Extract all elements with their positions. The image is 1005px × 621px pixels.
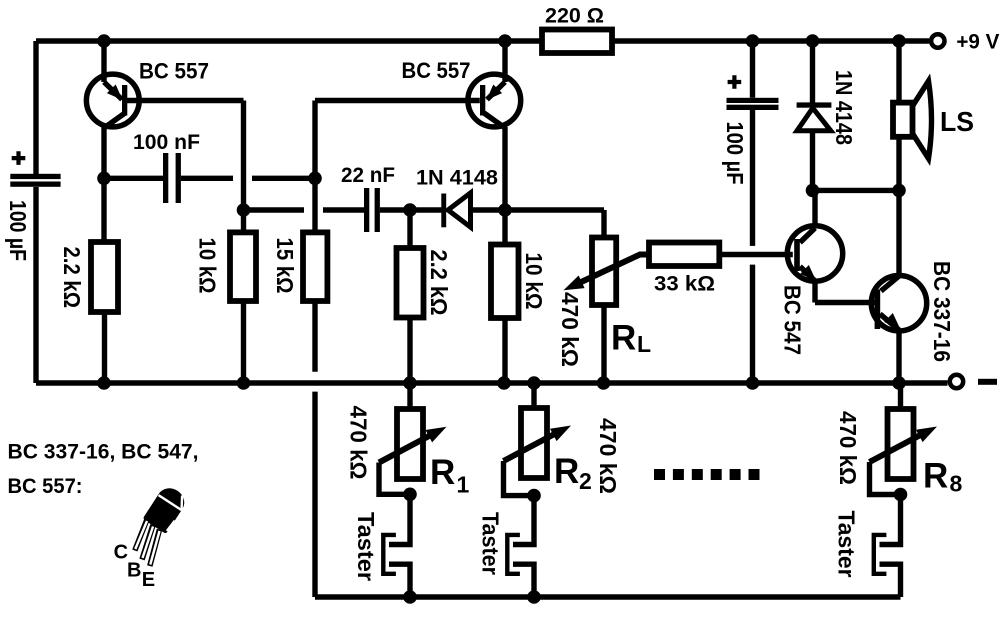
svg-text:LS: LS	[940, 106, 974, 137]
svg-text:Taster: Taster	[478, 512, 504, 575]
svg-text:C: C	[114, 542, 128, 564]
svg-text:100 µF: 100 µF	[722, 122, 748, 185]
svg-text:BC 337-16, BC 547,: BC 337-16, BC 547,	[8, 440, 199, 464]
svg-text:10 kΩ: 10 kΩ	[195, 238, 221, 294]
svg-text:L: L	[637, 331, 651, 357]
svg-text:R: R	[923, 457, 948, 496]
svg-text:2.2 kΩ: 2.2 kΩ	[59, 247, 85, 309]
svg-text:10 kΩ: 10 kΩ	[521, 253, 547, 310]
svg-text:1: 1	[457, 472, 470, 498]
svg-text:15 kΩ: 15 kΩ	[272, 238, 298, 294]
svg-text:470 kΩ: 470 kΩ	[346, 406, 372, 480]
svg-text:BC 557: BC 557	[139, 59, 209, 84]
svg-text:B: B	[127, 560, 141, 582]
svg-text:470 kΩ: 470 kΩ	[557, 292, 583, 367]
svg-text:33 kΩ: 33 kΩ	[654, 272, 715, 296]
svg-text:470 kΩ: 470 kΩ	[595, 418, 621, 494]
svg-text:+9 V: +9 V	[956, 30, 1000, 54]
svg-text:BC 557:: BC 557:	[8, 474, 83, 498]
svg-text:R: R	[554, 452, 579, 491]
svg-text:BC 547: BC 547	[780, 285, 806, 355]
svg-text:220 Ω: 220 Ω	[545, 4, 604, 28]
svg-text:1N 4148: 1N 4148	[416, 166, 498, 190]
svg-text:BC 557: BC 557	[402, 58, 471, 83]
svg-text:R: R	[611, 319, 636, 358]
svg-text:470 kΩ: 470 kΩ	[835, 411, 861, 485]
svg-text:R: R	[430, 453, 455, 492]
svg-text:100 µF: 100 µF	[5, 200, 31, 261]
svg-text:Taster: Taster	[353, 512, 379, 581]
svg-text:BC 337-16: BC 337-16	[929, 261, 955, 362]
svg-text:100 nF: 100 nF	[133, 130, 200, 154]
svg-text:2: 2	[579, 468, 592, 494]
svg-text:E: E	[142, 569, 155, 591]
svg-text:8: 8	[950, 471, 963, 497]
svg-text:Taster: Taster	[834, 511, 860, 578]
svg-text:22 nF: 22 nF	[341, 163, 395, 187]
svg-text:2.2 kΩ: 2.2 kΩ	[426, 250, 452, 316]
svg-text:1N 4148: 1N 4148	[831, 70, 857, 145]
